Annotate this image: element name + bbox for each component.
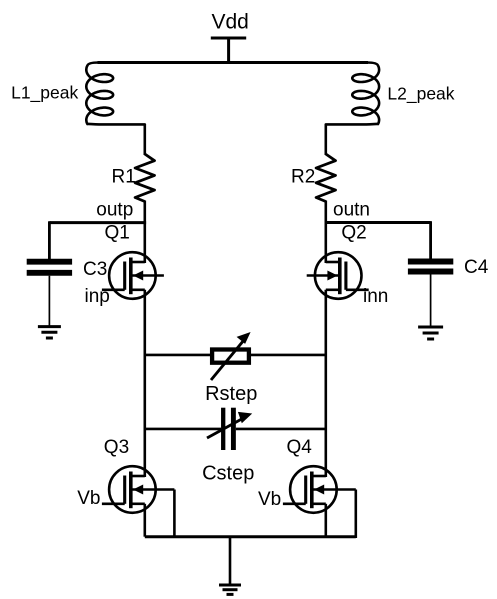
wire: Q2 source down to Q4 drain	[324, 290, 327, 477]
transistor Q1	[102, 252, 164, 299]
svg-text:Q3: Q3	[104, 437, 129, 458]
svg-text:Q2: Q2	[341, 222, 366, 243]
svg-text:C3: C3	[83, 259, 107, 280]
wire: outn down to C4	[429, 221, 432, 258]
transistor Q4	[283, 466, 356, 513]
svg-text:L1_peak: L1_peak	[11, 83, 78, 104]
wire: Vdd top rail	[98, 61, 369, 64]
ground (C3)	[38, 327, 61, 338]
wire: Rstep horizontal	[145, 354, 326, 357]
inductor L1_peak	[86, 63, 145, 125]
wire: Cstep horizontal right	[236, 428, 326, 431]
ground (C4)	[418, 327, 443, 339]
svg-text:R1: R1	[112, 167, 136, 188]
capacitor C3	[27, 262, 72, 273]
wire: Q3 source down	[144, 504, 147, 537]
wire: outp down to C3	[48, 221, 51, 259]
resistor R2	[316, 154, 335, 202]
wire: outn horizontal to C4	[325, 221, 431, 224]
wire: Q4 bulk to source rail	[354, 490, 357, 539]
wire: Q3 bulk to source rail	[173, 490, 176, 539]
wire: rail to ground	[229, 537, 232, 585]
svg-text:L2_peak: L2_peak	[387, 84, 454, 105]
svg-text:outn: outn	[333, 199, 370, 220]
variable capacitor Cstep	[207, 408, 252, 450]
wire: L1 to R1	[144, 124, 147, 155]
wire: C4 to ground	[430, 274, 432, 326]
svg-text:Vb: Vb	[258, 489, 281, 510]
ground (tail)	[219, 585, 241, 594]
wire: R1 bottom to Q1 drain (node outp)	[144, 201, 147, 264]
wire: outp horizontal to C3	[49, 221, 146, 224]
svg-text:Q1: Q1	[105, 222, 130, 243]
svg-text:Rstep: Rstep	[205, 383, 257, 405]
wire: R2 bottom to Q2 drain (node outn)	[324, 201, 327, 264]
transistor Q3	[102, 466, 174, 513]
svg-text:inp: inp	[85, 286, 110, 307]
wire: Q1 source down to Q3 drain	[144, 290, 147, 477]
transistor Q2	[307, 252, 369, 299]
svg-text:C4: C4	[464, 257, 489, 278]
svg-text:Cstep: Cstep	[202, 463, 254, 485]
svg-text:inn: inn	[363, 286, 388, 307]
capacitor C4	[408, 262, 453, 272]
Vdd supply symbol	[211, 38, 246, 64]
svg-text:Q4: Q4	[287, 437, 313, 458]
wire: bottom source rail	[145, 535, 356, 538]
wire: Cstep horizontal left	[145, 428, 221, 431]
svg-text:Vdd: Vdd	[212, 11, 249, 34]
resistor R1	[135, 154, 154, 202]
wire: R2 top	[324, 124, 327, 155]
svg-text:R2: R2	[291, 167, 315, 188]
svg-text:Vb: Vb	[77, 488, 100, 509]
wire: Q4 source down	[324, 504, 327, 537]
variable resistor Rstep	[211, 332, 251, 380]
inductor L2_peak	[326, 63, 379, 125]
svg-text:outp: outp	[96, 199, 133, 220]
wire: C3 to ground	[48, 276, 50, 326]
